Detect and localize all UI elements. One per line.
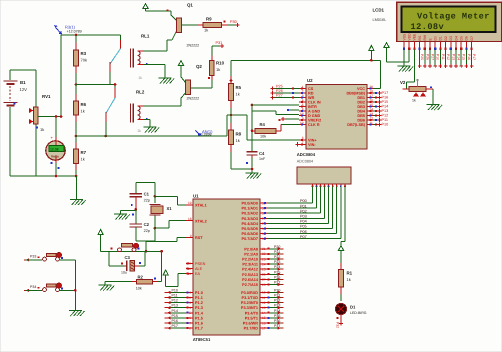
svg-text:DB6: DB6 [357, 119, 365, 123]
svg-text:P13: P13 [382, 109, 389, 113]
svg-text:Q2: Q2 [196, 64, 202, 69]
LED D1 [335, 303, 346, 314]
svg-text:1k: 1k [236, 138, 240, 143]
svg-text:P36: P36 [274, 319, 280, 323]
wire XTAL1 net [155, 195, 178, 197]
probe AN(1) [196, 131, 201, 136]
svg-text:VREF/2: VREF/2 [308, 119, 321, 123]
svg-text:P2.1/A9: P2.1/A9 [244, 252, 258, 256]
resistor R7 [75, 136, 77, 143]
svg-text:P37: P37 [274, 324, 280, 328]
svg-text:P26: P26 [276, 89, 283, 93]
resistor R6 [75, 85, 77, 95]
svg-text:P0.6/AD6: P0.6/AD6 [242, 232, 258, 236]
power arrow VCC rail [369, 46, 374, 51]
svg-text:P1.2: P1.2 [195, 301, 203, 305]
wire EA to power [178, 273, 186, 275]
resistor pack RP1 [297, 167, 351, 184]
svg-text:2N2222: 2N2222 [187, 44, 200, 48]
svg-text:R10: R10 [216, 61, 225, 66]
ground under rail [76, 176, 78, 200]
probe R3(1) [56, 28, 62, 35]
svg-text:P2.6/A14: P2.6/A14 [242, 278, 259, 282]
svg-text:P30: P30 [274, 288, 280, 292]
svg-text:P1.4: P1.4 [195, 311, 204, 315]
svg-text:2k: 2k [139, 76, 143, 80]
wire U2 A GND [252, 110, 276, 112]
svg-text:P26: P26 [425, 54, 429, 60]
svg-text:P07: P07 [300, 235, 307, 239]
svg-text:LM016L: LM016L [373, 18, 387, 22]
svg-text:P27: P27 [276, 94, 283, 98]
battery B1 [9, 70, 11, 80]
wire top rail [61, 34, 121, 36]
svg-text:P34: P34 [30, 285, 36, 289]
power arrow LCD VDD [384, 43, 389, 48]
svg-text:DB3: DB3 [357, 105, 365, 109]
svg-text:R1: R1 [347, 271, 353, 276]
svg-text:1k: 1k [204, 28, 208, 33]
svg-text:P3.3/INT1: P3.3/INT1 [241, 306, 258, 310]
svg-text:P00: P00 [300, 199, 307, 203]
resistor R3 [75, 35, 77, 43]
wire RL2 coil to ground [143, 119, 150, 121]
wire analog net to ADC [76, 135, 227, 137]
microcontroller U1 body [193, 199, 260, 335]
svg-text:VEE: VEE [413, 33, 417, 41]
svg-text:2N2222: 2N2222 [187, 97, 200, 101]
wire bottom rail [10, 175, 77, 177]
svg-text:DB4: DB4 [357, 110, 365, 114]
svg-text:P0.2/AD2: P0.2/AD2 [242, 212, 258, 216]
svg-text:10k: 10k [136, 287, 142, 291]
push button B2 [26, 289, 29, 292]
svg-text:C4: C4 [259, 151, 265, 156]
svg-text:P2.0/A8: P2.0/A8 [244, 247, 258, 251]
wire R8 to ground rail [231, 168, 252, 170]
svg-text:DB7(LSB): DB7(LSB) [347, 123, 365, 127]
power arrow R1 [338, 246, 343, 251]
svg-text:U1: U1 [193, 194, 199, 199]
wire LCD VSS to ground [403, 50, 405, 67]
svg-text:1k: 1k [412, 99, 416, 103]
svg-text:P31: P31 [216, 41, 223, 45]
svg-text:12.08v: 12.08v [411, 22, 445, 32]
svg-text:LED-BIRG: LED-BIRG [350, 311, 367, 315]
svg-text:P3.4/T0: P3.4/T0 [245, 311, 258, 315]
svg-text:1k: 1k [81, 109, 85, 114]
svg-text:22p: 22p [144, 199, 150, 203]
svg-text:P24: P24 [274, 265, 280, 269]
svg-text:P13: P13 [451, 54, 455, 60]
svg-text:RS: RS [418, 35, 422, 40]
svg-text:RST: RST [195, 236, 203, 240]
svg-text:DB5: DB5 [357, 114, 365, 118]
svg-text:ALE: ALE [195, 267, 203, 271]
svg-text:P0.4/AD4: P0.4/AD4 [242, 222, 259, 226]
wire RL2 coil to Q2 base [143, 105, 181, 107]
svg-text:1k: 1k [236, 92, 240, 97]
ground crystal caps [135, 208, 138, 211]
svg-text:DB2: DB2 [357, 101, 365, 105]
LCD data wires D0-D7 [434, 50, 436, 66]
svg-text:C1: C1 [144, 191, 150, 196]
svg-text:70k: 70k [81, 58, 87, 63]
svg-text:RL2: RL2 [136, 90, 145, 95]
relay contact 2 [114, 85, 116, 89]
svg-text:P1.3: P1.3 [195, 306, 203, 310]
wire U2 CLK IN [252, 104, 299, 106]
bus wires U1 P0 to RP1 [267, 202, 313, 204]
svg-text:P3.6/WR: P3.6/WR [243, 322, 258, 326]
svg-text:P0.3/AD3: P0.3/AD3 [242, 217, 258, 221]
svg-text:1k: 1k [40, 127, 44, 132]
svg-text:P35: P35 [274, 314, 280, 318]
svg-text:P0.7/AD7: P0.7/AD7 [242, 237, 258, 241]
svg-text:RL1: RL1 [141, 34, 150, 39]
svg-text:D0: D0 [434, 36, 438, 40]
svg-text:P16: P16 [382, 96, 389, 100]
svg-text:P14: P14 [382, 105, 389, 109]
svg-text:P1.7: P1.7 [195, 327, 203, 331]
wire RV1 wiper [38, 116, 61, 118]
svg-text:VIN+: VIN+ [308, 138, 317, 142]
ground LCD VSS [398, 65, 411, 67]
ground RL2 [144, 126, 157, 128]
svg-text:P12: P12 [382, 114, 389, 118]
svg-text:P0.5/AD5: P0.5/AD5 [242, 227, 258, 231]
wire U2 INTR [288, 109, 299, 111]
svg-text:D6: D6 [465, 36, 469, 40]
svg-text:P13: P13 [172, 304, 178, 308]
svg-text:P11: P11 [441, 54, 445, 60]
svg-text:R7: R7 [81, 150, 87, 155]
wire buttons to ground [74, 260, 76, 311]
wire RL1 coil to ground [143, 64, 165, 66]
svg-text:P12: P12 [446, 54, 450, 60]
resistor R4 [252, 130, 255, 132]
wire VCC rail [231, 59, 381, 61]
svg-text:P0.1/AD1: P0.1/AD1 [242, 207, 258, 211]
svg-text:1k: 1k [81, 157, 85, 162]
wire LCD VEE to pot V2 [413, 50, 415, 83]
svg-text:P17: P17 [382, 91, 389, 95]
svg-text:P33: P33 [30, 255, 36, 259]
svg-text:R3: R3 [81, 51, 87, 56]
wire crystal bottom rail [136, 240, 155, 242]
svg-text:P15: P15 [382, 100, 389, 104]
wire U2 VCC riser [374, 88, 381, 90]
push button reset [118, 248, 122, 252]
svg-text:P2.4/A12: P2.4/A12 [242, 268, 258, 272]
wire LCD VDD to power [408, 50, 410, 62]
svg-text:D1: D1 [439, 36, 443, 40]
resistor R9 [198, 24, 203, 26]
svg-text:P17: P17 [472, 54, 476, 60]
svg-text:P03: P03 [300, 215, 307, 219]
resistor R8 [230, 123, 232, 130]
svg-text:1nF: 1nF [259, 157, 266, 161]
svg-text:WR: WR [308, 96, 315, 100]
wire battery top rail [10, 69, 36, 71]
wire V2 to ground [426, 88, 433, 90]
ground R2 [104, 282, 106, 285]
svg-text:Q1: Q1 [187, 3, 193, 8]
svg-text:CS: CS [308, 87, 314, 91]
svg-text:P15: P15 [462, 54, 466, 60]
svg-text:ADC0804: ADC0804 [297, 160, 313, 164]
svg-text:P25: P25 [276, 85, 283, 89]
svg-text:ADC0804: ADC0804 [297, 152, 316, 157]
svg-text:1k: 1k [347, 277, 351, 282]
svg-text:VSS: VSS [402, 33, 406, 41]
resistor R1 [340, 253, 342, 263]
svg-text:P25: P25 [420, 54, 424, 60]
ADC U2 body [306, 85, 367, 150]
svg-text:P3.5/T1: P3.5/T1 [245, 316, 258, 320]
svg-text:P3.7/RD: P3.7/RD [244, 327, 259, 331]
svg-text:P15: P15 [172, 314, 178, 318]
svg-text:P3.0/RXD: P3.0/RXD [241, 291, 258, 295]
svg-text:P3.2/INT0: P3.2/INT0 [241, 301, 258, 305]
svg-text:INTR: INTR [308, 105, 317, 109]
svg-text:P06: P06 [300, 230, 307, 234]
svg-text:R9: R9 [206, 17, 212, 22]
svg-text:1k: 1k [216, 67, 220, 72]
crystal X1 [154, 182, 156, 203]
svg-text:P1.5: P1.5 [195, 316, 203, 320]
wire RL1 coil to Q1 base [143, 50, 167, 52]
ground RL1 [159, 77, 172, 79]
svg-text:D2: D2 [444, 36, 448, 40]
svg-text:P1.1: P1.1 [195, 296, 203, 300]
resistor R10 [211, 76, 213, 81]
svg-text:X1: X1 [167, 206, 173, 211]
svg-text:12.08: 12.08 [50, 148, 59, 152]
RP1 common to VCC arrow [344, 186, 346, 188]
svg-text:P2.5/A13: P2.5/A13 [242, 273, 258, 277]
capacitor C3 [108, 251, 110, 265]
wire U2 VREF/2 [284, 118, 299, 120]
svg-text:P10: P10 [172, 288, 178, 292]
svg-text:XTAL1: XTAL1 [195, 203, 207, 207]
svg-text:2k: 2k [138, 129, 142, 133]
svg-text:R5: R5 [236, 85, 242, 90]
svg-text:P14: P14 [172, 309, 178, 313]
svg-text:P31: P31 [274, 294, 280, 298]
svg-text:D4: D4 [454, 36, 458, 40]
svg-text:10u: 10u [121, 271, 127, 275]
svg-text:12V: 12V [20, 87, 28, 92]
svg-text:P33: P33 [274, 304, 280, 308]
svg-text:P23: P23 [274, 260, 280, 264]
ground V2 [427, 104, 440, 106]
svg-text:D3: D3 [449, 36, 453, 40]
push button B1 [26, 258, 29, 261]
svg-text:B1: B1 [20, 80, 26, 85]
svg-text:P16: P16 [467, 54, 471, 60]
svg-text:3.2898: 3.2898 [201, 132, 212, 136]
svg-text:D GND: D GND [308, 114, 320, 118]
svg-text:P14: P14 [457, 54, 461, 60]
svg-text:P1.0: P1.0 [195, 291, 203, 295]
svg-text:R4: R4 [260, 122, 266, 127]
power arrow Q2 collector [178, 61, 183, 66]
svg-text:AT89C51: AT89C51 [193, 337, 211, 342]
svg-text:10k: 10k [260, 135, 266, 139]
power arrow Q1 collector [143, 4, 148, 9]
svg-text:VIN-: VIN- [308, 143, 316, 147]
svg-text:PSEN: PSEN [195, 262, 206, 266]
svg-text:22p: 22p [144, 229, 150, 233]
svg-text:P22: P22 [274, 255, 280, 259]
svg-text:P10: P10 [436, 54, 440, 60]
svg-text:R8: R8 [236, 132, 242, 137]
svg-text:P20: P20 [274, 245, 280, 249]
svg-text:VDD: VDD [408, 33, 412, 41]
svg-text:R6: R6 [81, 102, 87, 107]
svg-text:P2.2/A10: P2.2/A10 [242, 258, 258, 262]
svg-text:P0.0/AD0: P0.0/AD0 [242, 202, 258, 206]
svg-text:P05: P05 [300, 225, 307, 229]
voltmeter [55, 117, 57, 141]
power arrow EA [163, 270, 168, 275]
svg-text:P32: P32 [274, 299, 280, 303]
svg-text:P21: P21 [274, 250, 280, 254]
ground buttons [69, 310, 82, 312]
svg-text:P04: P04 [300, 220, 307, 224]
wire XTAL2 net [155, 227, 169, 229]
svg-text:P32: P32 [336, 322, 340, 328]
svg-text:P11: P11 [382, 118, 388, 122]
node R3-R6 [75, 83, 78, 86]
svg-text:P1.6: P1.6 [195, 322, 203, 326]
LCD control wires RS RW E [419, 50, 421, 66]
svg-text:CLK R: CLK R [308, 123, 320, 127]
svg-text:DB0(MSB): DB0(MSB) [346, 92, 365, 96]
wire reset rail [101, 250, 162, 252]
svg-text:+12.0789: +12.0789 [67, 30, 82, 34]
svg-text:P10: P10 [382, 123, 389, 127]
svg-text:P02: P02 [300, 209, 307, 213]
svg-text:D1: D1 [350, 305, 356, 310]
svg-text:Volts: Volts [51, 154, 59, 158]
resistor R5 [230, 76, 232, 84]
svg-text:P27: P27 [274, 281, 280, 285]
svg-text:Voltage Meter: Voltage Meter [417, 12, 490, 22]
svg-text:P16: P16 [172, 319, 178, 323]
svg-text:D5: D5 [460, 36, 464, 40]
svg-text:P34: P34 [274, 309, 280, 313]
svg-text:P25: P25 [274, 270, 280, 274]
potentiometer RV1 [35, 124, 37, 176]
svg-text:CLK IN: CLK IN [308, 101, 321, 105]
svg-text:EA: EA [195, 272, 201, 276]
svg-text:P11: P11 [172, 294, 178, 298]
svg-text:C3: C3 [125, 255, 131, 260]
svg-text:P2.3/A11: P2.3/A11 [242, 263, 258, 267]
ground C4/R8 [246, 172, 259, 174]
svg-text:V2: V2 [400, 80, 406, 85]
capacitor C4 [251, 105, 253, 152]
svg-text:P12: P12 [172, 299, 178, 303]
wire RST net [177, 237, 186, 239]
power arrow reset [98, 230, 103, 235]
svg-text:A GND: A GND [308, 110, 320, 114]
relay contact 1 [120, 35, 122, 40]
svg-text:DB1: DB1 [357, 96, 365, 100]
svg-text:P30: P30 [230, 20, 237, 24]
svg-text:P3.1/TXD: P3.1/TXD [242, 296, 259, 300]
wires U2 CS RD WR to P25 P26 P27 [274, 88, 299, 90]
svg-text:U2: U2 [307, 78, 313, 83]
svg-text:P27: P27 [431, 54, 435, 60]
svg-text:RV1: RV1 [42, 94, 51, 99]
svg-text:RD: RD [308, 92, 314, 96]
svg-text:XTAL2: XTAL2 [195, 219, 207, 223]
svg-text:P01: P01 [300, 204, 307, 208]
node R6-R7 [75, 135, 78, 138]
svg-text:RW: RW [423, 34, 427, 40]
capacitor C2 [135, 209, 137, 223]
svg-text:P26: P26 [274, 275, 280, 279]
svg-text:R2: R2 [138, 274, 144, 279]
svg-text:P17: P17 [172, 324, 178, 328]
svg-text:D7: D7 [470, 36, 474, 40]
svg-text:VCC: VCC [357, 87, 365, 91]
capacitor C1 [136, 181, 155, 183]
svg-text:LCD1: LCD1 [373, 8, 385, 13]
svg-text:P2.7/A15: P2.7/A15 [242, 283, 258, 287]
svg-text:C2: C2 [144, 222, 150, 227]
